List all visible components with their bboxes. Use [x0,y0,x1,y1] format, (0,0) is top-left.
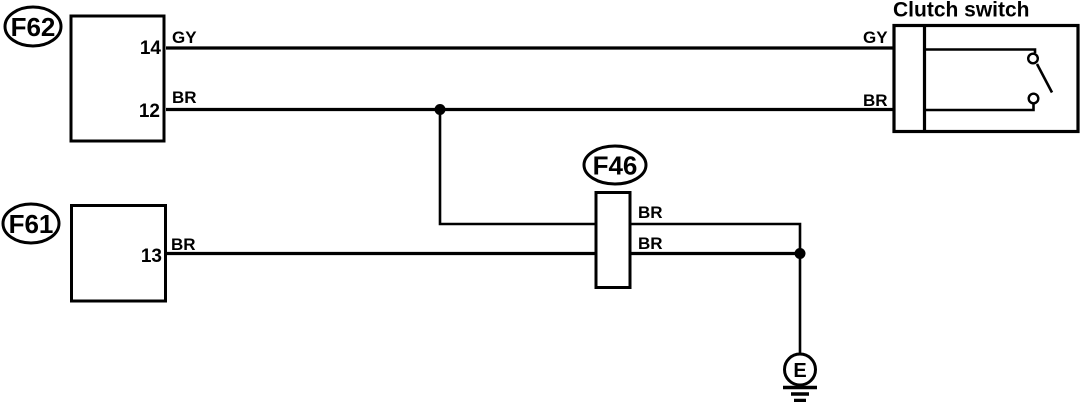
svg-text:BR: BR [863,91,888,110]
connector F61 box [72,206,166,302]
svg-text:F62: F62 [11,12,56,42]
connector F46 box [596,193,630,288]
svg-text:GY: GY [863,28,888,47]
connector F62 box [71,16,164,141]
svg-text:Clutch switch: Clutch switch [893,0,1030,22]
wire BR pin12 to clutch switch [166,108,893,111]
connector F62 oval label [5,7,61,46]
svg-text:13: 13 [141,246,162,267]
wire down to ground [799,254,802,355]
svg-text:E: E [793,360,806,382]
switch contact bottom [1029,94,1039,104]
clutch switch inner connector line [923,24,926,133]
switch contact top [1028,54,1038,64]
svg-text:BR: BR [172,88,197,107]
wire inside switch top [926,50,1035,54]
clutch switch box [894,26,1078,132]
connector F61 oval label [3,204,59,243]
svg-text:F46: F46 [593,151,638,181]
svg-text:F61: F61 [9,209,54,239]
wire GY pin14 to clutch switch [166,46,893,49]
wire inside switch bottom [926,104,1034,110]
svg-text:BR: BR [638,234,663,253]
svg-text:GY: GY [172,28,197,47]
wire junction down and right to F46 [440,110,596,225]
svg-text:14: 14 [140,38,162,59]
svg-text:BR: BR [638,203,663,222]
wire F46 right to ground junction [630,252,800,255]
junction node on BR wire [435,104,446,115]
svg-text:BR: BR [171,235,196,254]
svg-text:12: 12 [139,101,160,122]
connector F46 oval label [584,146,646,184]
junction node ground [795,248,806,259]
wire F46 right to down junction [630,224,800,254]
switch blade [1037,64,1052,93]
ground symbol E [783,354,817,401]
wire F61 pin13 to F46 [167,252,596,255]
